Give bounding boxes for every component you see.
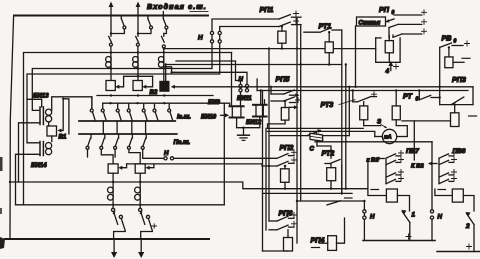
- wire line y201 with minus contact: [296, 198, 365, 205]
- contact ПВ8.1: [439, 151, 457, 159]
- breaker Q1: [110, 16, 126, 35]
- breaker Q2: [137, 16, 153, 35]
- svg-text:0: 0: [416, 97, 419, 103]
- contact РТ0: [419, 91, 439, 100]
- converter B1: [47, 122, 67, 141]
- wire bus tie 4: [145, 121, 147, 134]
- wire line y131: [268, 131, 375, 136]
- svg-text:Н: Н: [239, 76, 244, 83]
- isolator row lower unit 2: [100, 134, 113, 164]
- svg-text:БИ13: БИ13: [33, 93, 49, 100]
- svg-text:мА: мА: [384, 135, 392, 141]
- isolator row upper unit 2: [101, 103, 106, 120]
- relay coil ПВ8: [452, 189, 474, 211]
- wire bottom bus right: [363, 240, 435, 242]
- wire cap bottoms to ground: [237, 118, 260, 129]
- svg-text:РП5: РП5: [276, 75, 291, 84]
- contact РП3: [440, 87, 473, 105]
- relay coil РТ1: [325, 31, 333, 65]
- wire long line y90.5: [257, 89, 468, 91]
- wire long yB 205: [16, 204, 225, 206]
- scan artifact left edge 1: [0, 157, 3, 171]
- svg-text:РТ3: РТ3: [321, 100, 334, 109]
- sensor БИ13: [33, 93, 52, 125]
- wire bus tie 3: [131, 121, 133, 134]
- relay coil РТ3: [360, 102, 368, 126]
- isolator row lower unit 1: [86, 134, 91, 157]
- node B feeder arrow up 2: [136, 2, 141, 16]
- wire middle rail x262.5: [262, 91, 264, 252]
- wire line y193.4: [263, 192, 353, 194]
- wire РВ0 feed: [439, 47, 441, 104]
- svg-text:2: 2: [465, 223, 470, 230]
- contact ПВ8.4: [439, 176, 457, 184]
- svg-text:РТ: РТ: [403, 92, 412, 101]
- wire top bus Входная с.ш.: [14, 15, 208, 17]
- contact РП5.1: [271, 90, 300, 97]
- contact РТ3: [353, 92, 377, 102]
- label РВ0: [442, 34, 457, 45]
- svg-text:Н: Н: [438, 214, 443, 221]
- svg-text:С: С: [310, 146, 315, 153]
- arrow plus РП0 bottom: [388, 61, 398, 71]
- relay coil РП6: [263, 230, 293, 251]
- wire БИ11 terminals down: [240, 92, 242, 106]
- contact ПВ7.3: [386, 170, 404, 178]
- relay coil РП3: [451, 103, 477, 126]
- isolator row upper unit 3: [116, 103, 121, 120]
- knife switch 1: [401, 210, 415, 233]
- wire bus tie 1: [102, 121, 104, 134]
- wire БИ12 feed: [260, 89, 262, 105]
- CT winding lower 1: [108, 173, 114, 208]
- wire Б2 feed down: [165, 65, 167, 81]
- wire ПВ7 minus lead: [368, 159, 387, 196]
- svg-text:В1: В1: [59, 134, 67, 141]
- wire bundle x352.8: [352, 91, 354, 102]
- wire y61 to H terminals: [176, 61, 241, 84]
- contact ПВ7.1: [386, 151, 404, 159]
- svg-text:4: 4: [385, 68, 390, 75]
- disconnector S3: [162, 36, 166, 56]
- wire drop x414: [413, 121, 415, 160]
- relay coil РТ2: [327, 164, 336, 190]
- contact ПВ8.3: [439, 170, 457, 178]
- terminal grid БИ11: [239, 84, 249, 92]
- contact РТ1: [304, 28, 342, 32]
- svg-text:Н: Н: [164, 150, 169, 157]
- wire РП0 left drop: [355, 26, 357, 87]
- ground: [238, 128, 250, 141]
- contact РП2.2: [277, 158, 297, 167]
- wire arrow feed into B3: [115, 76, 123, 89]
- disconnector S1: [109, 36, 113, 56]
- wire Н line to РП2: [174, 157, 277, 159]
- isolator row upper unit 7: [168, 103, 173, 120]
- wire ПВ7 contact rail: [385, 158, 387, 184]
- wire bus tie 2: [116, 121, 118, 134]
- relay coil РВ0: [445, 46, 470, 68]
- svg-text:РП: РП: [379, 5, 390, 14]
- isolator row lower unit 4: [127, 134, 140, 164]
- wire test lead A (H to РП1): [32, 19, 279, 110]
- wire line y141.8: [315, 141, 432, 143]
- CT winding lower 2: [135, 173, 141, 208]
- wire long line y48.6: [163, 47, 376, 49]
- wire ПВ8 Н feed: [431, 142, 433, 210]
- wire bundle x341.8: [341, 165, 343, 193]
- svg-text:БИ14: БИ14: [31, 162, 47, 169]
- wire arrow into B6: [146, 164, 154, 170]
- wire second line to РП2: [127, 164, 277, 166]
- relay coil РП4: [312, 218, 345, 250]
- wire БИ12 cap top feed: [256, 79, 258, 91]
- wire switch 1 to bus: [406, 233, 411, 241]
- contact РТ2: [325, 150, 340, 164]
- label З with mark: [377, 118, 387, 128]
- wire arrow into B5: [118, 164, 126, 170]
- svg-text:ПВ7: ПВ7: [406, 148, 419, 155]
- transducer B4: [133, 81, 142, 91]
- svg-text:БИ10: БИ10: [201, 114, 217, 120]
- wire РП5 left rail: [270, 87, 272, 94]
- svg-text:РП2: РП2: [280, 143, 294, 152]
- svg-text:РП3: РП3: [452, 75, 466, 84]
- relay coil ПВ7: [386, 189, 409, 211]
- isolator row upper unit 5: [142, 103, 147, 120]
- contact РП0.1: [385, 10, 427, 23]
- contact РП0.2: [389, 19, 427, 27]
- signal box Сигнал: [357, 17, 386, 26]
- wire test lead B (H to РП1): [27, 27, 279, 143]
- isolator row upper unit 6: [153, 103, 158, 120]
- isolator row lower unit 5: [141, 134, 163, 158]
- wire ПВ8 minus lead: [435, 189, 452, 196]
- contact ПВ7.2: [386, 157, 404, 165]
- label РТ0: [403, 92, 419, 103]
- scan artifact bottom left 3: [0, 208, 2, 214]
- bus II section: [79, 134, 190, 146]
- wire middle rail x266: [265, 128, 267, 230]
- terminal pair A: [210, 31, 213, 43]
- svg-text:БИ9: БИ9: [208, 100, 220, 106]
- wire РП3 coil left line: [402, 120, 451, 122]
- capacitor С: [310, 131, 323, 146]
- wire РП1 output rail 1: [296, 17, 298, 243]
- CT winding W2: [133, 57, 139, 81]
- wire H2 drop to БИ capacitor: [231, 53, 233, 106]
- wire РТ1 output down: [341, 30, 343, 194]
- svg-text:К В2: К В2: [411, 163, 424, 169]
- wire БИ13 winding to switch row: [52, 97, 92, 111]
- isolator row upper unit 4: [127, 103, 132, 120]
- svg-text:Сигнал: Сигнал: [359, 20, 381, 26]
- contact РП1.1: [279, 11, 301, 19]
- wire line y135.6 with contact: [271, 129, 350, 135]
- contact РП0.3: [393, 29, 427, 38]
- relay coil Э: [392, 91, 407, 137]
- isolator row upper unit 1: [90, 97, 95, 120]
- wire bundle x345.8: [345, 63, 347, 188]
- wire link y76: [124, 75, 153, 77]
- svg-text:З: З: [377, 118, 381, 125]
- wire H2 row y52: [24, 51, 232, 205]
- node A feeder arrow up 1: [109, 2, 114, 16]
- wire БИ13 top tap: [27, 99, 42, 107]
- wire line y128: [268, 127, 364, 129]
- transducer B6: [135, 164, 145, 173]
- transducer B2 (filled): [150, 81, 170, 96]
- wire column 2: [137, 16, 139, 37]
- relay coil РП2: [281, 165, 290, 190]
- transducer B5: [108, 164, 118, 173]
- label Входная с.ш.: [147, 2, 208, 12]
- meter мА: [375, 129, 408, 143]
- svg-text:Н: Н: [198, 35, 203, 42]
- wire bundle x349.3: [348, 87, 350, 136]
- svg-text:1: 1: [412, 212, 416, 219]
- capacitor БИ11/БИ12 stack: [253, 100, 267, 117]
- wire collector y103: [103, 102, 230, 205]
- terminal pair middle Н: [164, 157, 174, 160]
- wire middle rail x269: [268, 47, 270, 221]
- wire arrow into B1: [57, 98, 69, 134]
- contact РП5.2: [271, 97, 301, 109]
- svg-text:БИ11: БИ11: [237, 96, 252, 102]
- svg-text:Пс.ш.: Пс.ш.: [174, 139, 191, 146]
- CT winding W1: [106, 57, 112, 81]
- wire column 1: [110, 16, 112, 37]
- contact РП2.1: [277, 150, 297, 159]
- bus I section: [79, 113, 191, 121]
- terminal pair Н right column: [430, 210, 433, 241]
- wire РТ3 coil bottom loop: [364, 125, 381, 127]
- relay coil РП0: [385, 36, 393, 63]
- svg-text:Входная с.ш.: Входная с.ш.: [147, 2, 207, 11]
- wire long line y64.5: [165, 63, 342, 65]
- contact ПВ8.2: [439, 157, 457, 165]
- breaker Q3: [163, 12, 168, 34]
- label РП0: [379, 5, 395, 16]
- svg-text:Н: Н: [370, 214, 375, 221]
- wire БИ13 bottom tap: [19, 123, 41, 182]
- wire ПВ8 contact rail: [438, 158, 440, 184]
- svg-text:РП1: РП1: [260, 5, 274, 14]
- svg-text:РВ: РВ: [442, 34, 452, 43]
- label БИ10 with arrow: [201, 113, 229, 120]
- arrow down outgoing 2: [138, 239, 144, 258]
- label К В1 with arrow: [367, 157, 385, 164]
- wire collector y95: [97, 94, 213, 96]
- disconnector S2: [136, 36, 140, 56]
- wire y72 to H terminals: [172, 72, 247, 84]
- contact РВ0: [440, 41, 470, 47]
- transducer B3: [106, 81, 115, 91]
- wire line y188.7 right part: [345, 188, 368, 190]
- svg-text:РП6: РП6: [279, 209, 294, 218]
- knife switch 2: [465, 212, 474, 252]
- contact РП6.1: [269, 213, 297, 222]
- terminal pair Н left column: [363, 200, 366, 241]
- wire РП1 output rail 2: [300, 25, 302, 201]
- wire arrow feed into B4: [142, 76, 152, 89]
- knife switch line 1: [112, 208, 126, 239]
- CT winding W3: [158, 57, 172, 81]
- isolator row lower unit 3: [114, 134, 119, 157]
- svg-text:РТ2: РТ2: [322, 149, 335, 158]
- wire long line y86.8 with arrow to Б2: [171, 85, 473, 89]
- knife switch line 2: [139, 208, 157, 239]
- wire column 3: [163, 34, 165, 37]
- wire left frame vertical: [10, 16, 14, 239]
- svg-text:0: 0: [454, 39, 457, 45]
- relay coil РП5: [268, 100, 289, 129]
- contact ПВ7.4: [386, 176, 404, 184]
- wire БИ14 bottom tap: [16, 154, 41, 205]
- relay coil РП1: [278, 25, 286, 50]
- wire bottom bus left: [5, 238, 209, 240]
- wire РП0 bracket: [376, 28, 400, 63]
- label К В2 with arrow: [411, 162, 437, 170]
- scan artifact left edge 2: [0, 237, 5, 249]
- svg-text:Iс.ш.: Iс.ш.: [177, 113, 191, 120]
- contact РП6.2: [269, 221, 297, 230]
- arrow down outgoing 1: [111, 239, 117, 258]
- contact РП1.2: [279, 19, 301, 27]
- label РТ3 with leader: [321, 100, 356, 109]
- capacitor БИ9/БИ10 stack: [230, 106, 244, 117]
- svg-text:ПВ8: ПВ8: [453, 148, 466, 155]
- sensor БИ14: [31, 136, 52, 169]
- wire long yA 182: [9, 181, 347, 189]
- terminal pair B: [218, 31, 221, 43]
- wire bottom right line: [437, 244, 480, 252]
- wire С cap to РТ2: [317, 146, 331, 150]
